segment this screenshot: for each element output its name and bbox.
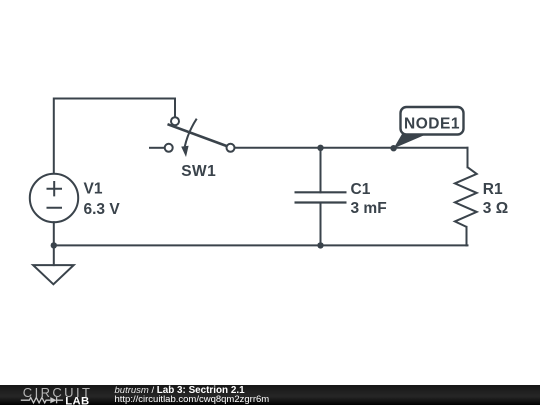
footer text: [115, 386, 270, 405]
svg-text:R1: R1: [483, 181, 503, 198]
wire right vertical into R1: [467, 148, 469, 167]
wire from SW1 right terminal to top-right corner: [235, 147, 468, 149]
svg-text:LAB: LAB: [65, 395, 89, 405]
CircuitLab logo: [0, 385, 110, 405]
svg-text:NODE1: NODE1: [404, 115, 460, 132]
SW1 right terminal: [227, 144, 235, 152]
voltage source V1: [30, 174, 78, 222]
C1 value label: [351, 181, 387, 217]
svg-text:SW1: SW1: [181, 163, 216, 180]
SW1 arm: [168, 124, 227, 146]
switch SW1: [149, 117, 235, 157]
V1 value label: [84, 181, 121, 218]
ground: [33, 265, 74, 284]
NODE1 callout box: [401, 107, 464, 135]
wire top horizontal from V1 to SW1: [54, 99, 175, 174]
svg-text:3 Ω: 3 Ω: [483, 200, 508, 217]
SW1 left throw stub: [149, 147, 165, 149]
R1 value label: [483, 181, 508, 217]
junction dot V1 bottom: [51, 242, 57, 248]
SW1 left throw terminal: [165, 144, 173, 152]
wire R1 bottom to bottom rail: [466, 227, 468, 246]
SW1 actuation arrow: [185, 119, 197, 147]
node NODE1 dot: [390, 145, 396, 151]
wire ground stem: [53, 245, 55, 265]
wire C1 bottom lead: [320, 203, 322, 246]
junction dot C1 bottom: [317, 242, 323, 248]
NODE1 callout pointer: [394, 134, 427, 148]
svg-text:C1: C1: [351, 181, 371, 198]
wire bottom rail: [54, 244, 468, 246]
SW1 top terminal: [171, 117, 179, 125]
svg-text:6.3 V: 6.3 V: [84, 201, 121, 218]
junction dot C1 top: [317, 145, 323, 151]
footer bar: [0, 385, 540, 405]
svg-text:V1: V1: [84, 181, 103, 198]
wire V1 bottom: [53, 222, 55, 245]
resistor R1: [455, 167, 477, 227]
capacitor C1 plates: [295, 192, 347, 202]
logo resistor+diode glyph: [21, 397, 63, 403]
svg-text:3 mF: 3 mF: [351, 200, 387, 217]
wire C1 top lead: [320, 148, 322, 193]
